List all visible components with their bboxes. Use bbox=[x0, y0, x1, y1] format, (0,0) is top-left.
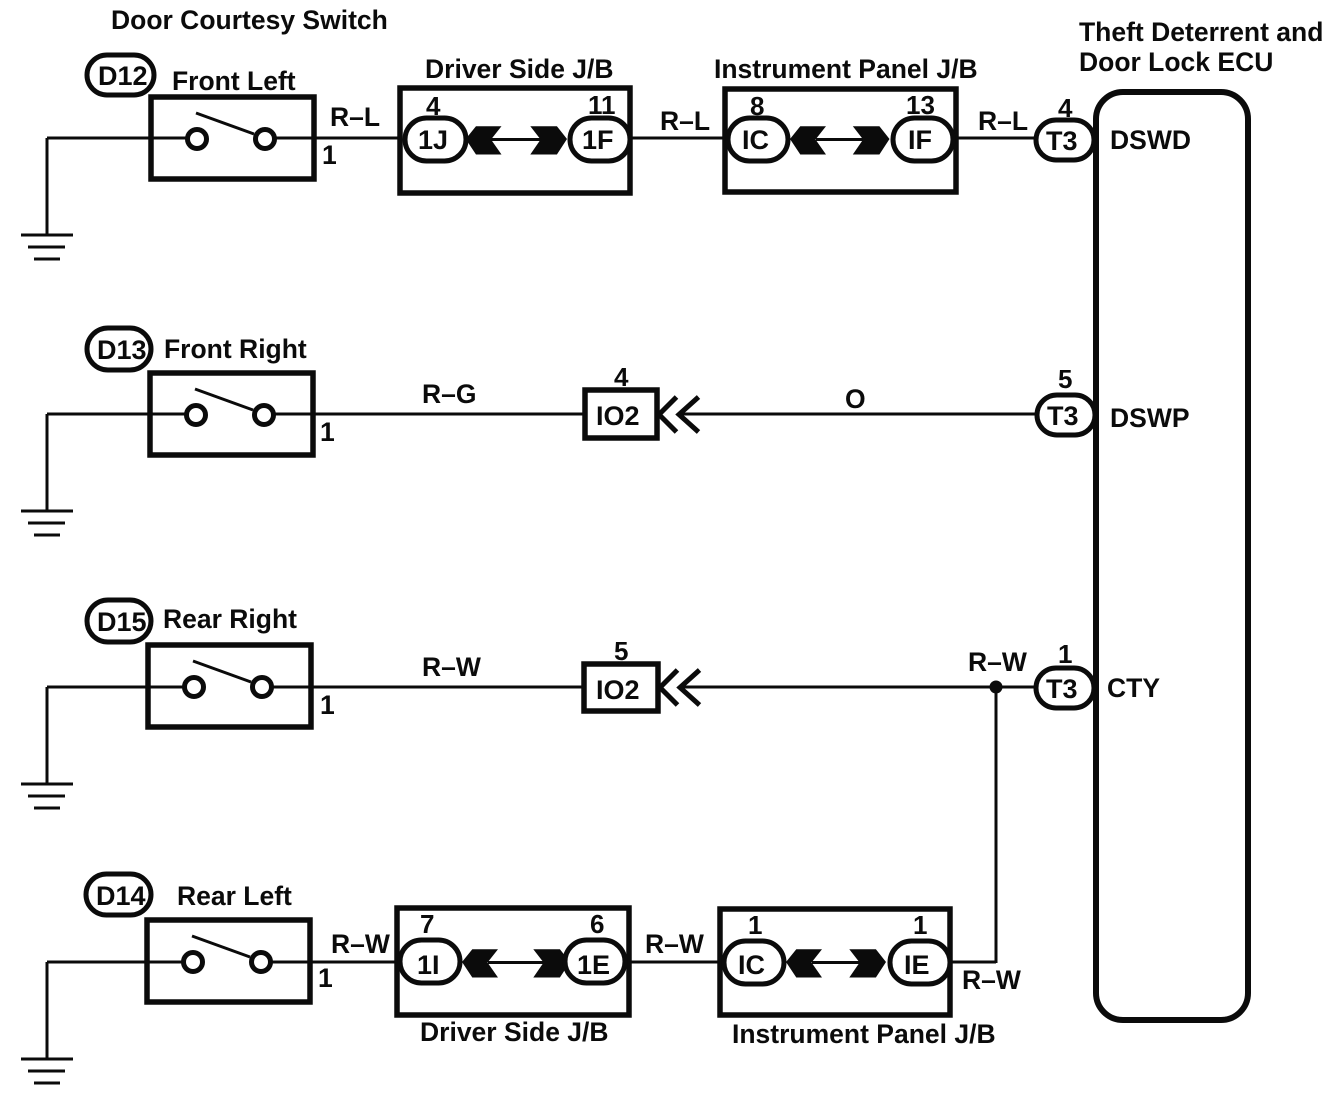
svg-text:R–L: R–L bbox=[330, 102, 380, 132]
svg-text:4: 4 bbox=[614, 362, 629, 392]
svg-text:CTY: CTY bbox=[1107, 673, 1160, 703]
svg-text:1: 1 bbox=[913, 910, 927, 940]
svg-text:Instrument Panel J/B: Instrument Panel J/B bbox=[732, 1019, 996, 1049]
svg-text:IO2: IO2 bbox=[596, 675, 640, 705]
svg-text:DSWD: DSWD bbox=[1110, 125, 1191, 155]
svg-text:Driver Side J/B: Driver Side J/B bbox=[420, 1017, 609, 1047]
svg-text:1: 1 bbox=[320, 417, 335, 447]
svg-text:R–W: R–W bbox=[422, 652, 481, 682]
svg-text:T3: T3 bbox=[1046, 674, 1078, 704]
svg-text:7: 7 bbox=[420, 909, 434, 939]
svg-text:IF: IF bbox=[908, 125, 932, 155]
svg-text:1I: 1I bbox=[417, 950, 440, 980]
svg-text:5: 5 bbox=[1058, 364, 1072, 394]
svg-text:IC: IC bbox=[738, 950, 765, 980]
svg-text:1: 1 bbox=[748, 910, 762, 940]
svg-text:5: 5 bbox=[614, 636, 628, 666]
svg-text:D13: D13 bbox=[97, 335, 147, 365]
svg-text:1F: 1F bbox=[582, 125, 614, 155]
svg-text:IO2: IO2 bbox=[596, 401, 640, 431]
svg-text:8: 8 bbox=[750, 91, 764, 121]
svg-text:D14: D14 bbox=[96, 881, 146, 911]
svg-text:R–W: R–W bbox=[962, 965, 1021, 995]
svg-text:Driver Side J/B: Driver Side J/B bbox=[425, 54, 614, 84]
svg-text:Front Left: Front Left bbox=[172, 66, 296, 96]
svg-text:T3: T3 bbox=[1046, 126, 1078, 156]
svg-text:IE: IE bbox=[904, 950, 930, 980]
svg-text:1: 1 bbox=[318, 963, 333, 993]
svg-text:Rear Left: Rear Left bbox=[177, 881, 292, 911]
svg-text:13: 13 bbox=[906, 90, 935, 120]
svg-text:IC: IC bbox=[742, 125, 769, 155]
svg-text:Rear Right: Rear Right bbox=[163, 604, 297, 634]
svg-text:DSWP: DSWP bbox=[1110, 403, 1190, 433]
svg-text:O: O bbox=[845, 384, 866, 414]
svg-text:Theft Deterrent and: Theft Deterrent and bbox=[1079, 17, 1323, 47]
svg-text:1: 1 bbox=[322, 140, 337, 170]
svg-text:1E: 1E bbox=[577, 950, 610, 980]
svg-text:Instrument Panel J/B: Instrument Panel J/B bbox=[714, 54, 978, 84]
svg-text:R–W: R–W bbox=[645, 929, 704, 959]
svg-text:11: 11 bbox=[588, 90, 616, 120]
svg-text:1: 1 bbox=[1058, 639, 1072, 669]
svg-text:Door Lock ECU: Door Lock ECU bbox=[1079, 47, 1273, 77]
svg-text:4: 4 bbox=[426, 91, 441, 121]
svg-text:R–G: R–G bbox=[422, 379, 477, 409]
svg-text:Front Right: Front Right bbox=[164, 334, 307, 364]
svg-text:6: 6 bbox=[590, 909, 604, 939]
svg-text:D15: D15 bbox=[97, 607, 147, 637]
svg-text:R–L: R–L bbox=[978, 106, 1028, 136]
svg-text:Door Courtesy Switch: Door Courtesy Switch bbox=[111, 5, 388, 35]
svg-text:1: 1 bbox=[320, 690, 335, 720]
svg-text:R–W: R–W bbox=[968, 647, 1027, 677]
svg-text:D12: D12 bbox=[98, 61, 148, 91]
svg-text:1J: 1J bbox=[418, 125, 448, 155]
svg-text:R–W: R–W bbox=[331, 929, 390, 959]
svg-text:R–L: R–L bbox=[660, 106, 710, 136]
svg-text:4: 4 bbox=[1058, 93, 1073, 123]
svg-text:T3: T3 bbox=[1047, 401, 1079, 431]
